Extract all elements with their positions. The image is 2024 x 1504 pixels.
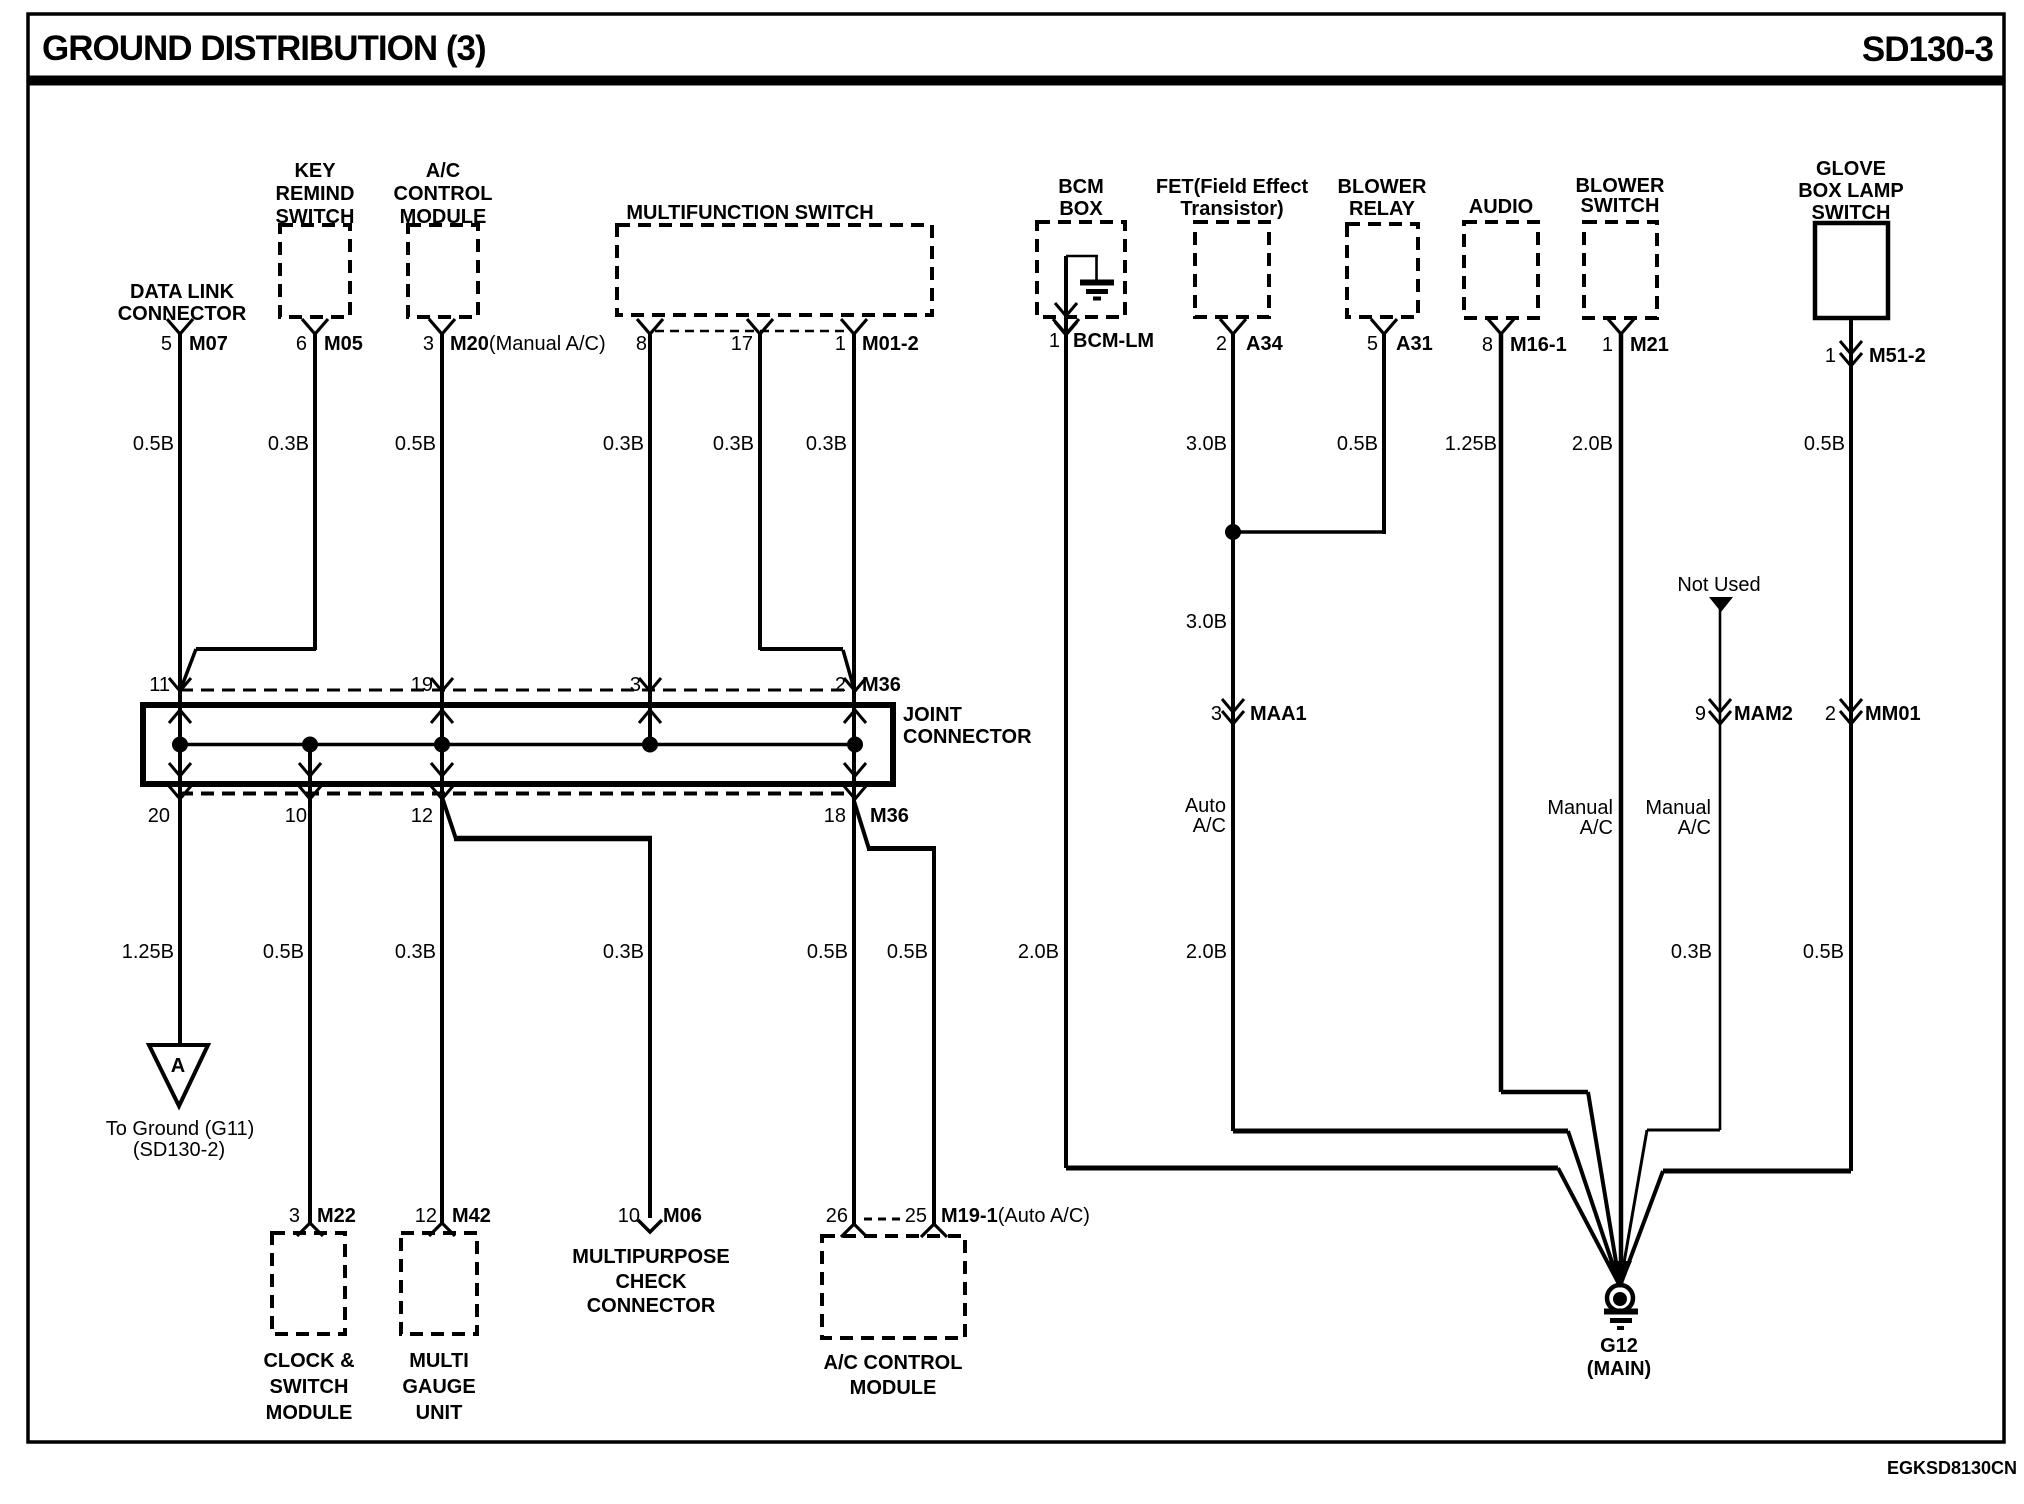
wire M16-1 horizontal run	[1501, 1090, 1588, 1095]
multifunction switch box	[617, 225, 932, 315]
connector Y M20	[429, 319, 455, 334]
fet box	[1195, 222, 1269, 317]
bcm internal ground bar 2	[1086, 289, 1108, 294]
clock & switch module box	[272, 1233, 345, 1334]
M19-1 connector dashed segment	[864, 1218, 904, 1221]
svg-text:A/C: A/C	[1580, 817, 1613, 839]
svg-text:GLOVE: GLOVE	[1816, 158, 1886, 180]
multi gauge unit box	[401, 1233, 477, 1334]
wire MAM2 diagonal to G12	[1620, 1130, 1647, 1286]
connector Y MFS pin 1	[841, 319, 867, 334]
svg-text:0.5B: 0.5B	[807, 941, 848, 963]
svg-text:Manual: Manual	[1645, 797, 1711, 819]
svg-text:0.5B: 0.5B	[1804, 433, 1845, 455]
bus junction dot pin 10	[302, 737, 318, 753]
svg-text:UNIT: UNIT	[416, 1402, 463, 1424]
wire joint pin 10 to M22	[308, 745, 312, 1223]
joint bottom pin 10 inner arrow	[299, 763, 321, 776]
svg-text:CHECK: CHECK	[615, 1271, 687, 1293]
svg-text:MULTIPURPOSE: MULTIPURPOSE	[572, 1246, 729, 1268]
wire pin 17 horizontal jog	[760, 647, 843, 651]
svg-text:(MAIN): (MAIN)	[1587, 1358, 1651, 1380]
svg-text:A31: A31	[1396, 333, 1433, 355]
svg-text:GROUND DISTRIBUTION (3): GROUND DISTRIBUTION (3)	[42, 29, 486, 68]
wire MFS pin 17 vertical	[758, 334, 762, 650]
svg-text:2: 2	[1825, 703, 1836, 725]
wire MM01 diagonal to G12	[1620, 1171, 1663, 1286]
wire M05 vertical	[313, 334, 317, 650]
glove box lamp switch box	[1815, 223, 1888, 318]
svg-text:M42: M42	[452, 1205, 491, 1227]
svg-text:0.3B: 0.3B	[603, 941, 644, 963]
bus junction dot pin 11/20	[172, 737, 188, 753]
svg-text:CLOCK &: CLOCK &	[263, 1350, 354, 1372]
svg-text:CONNECTOR: CONNECTOR	[118, 303, 247, 325]
connector Y MFS pin 8	[637, 319, 663, 334]
svg-text:0.3B: 0.3B	[713, 433, 754, 455]
connector chevrons MM01	[1840, 699, 1862, 712]
svg-text:M16-1: M16-1	[1510, 334, 1567, 356]
wire BCM-LM horizontal run	[1066, 1166, 1558, 1171]
G12 ground bar 2	[1610, 1318, 1632, 1323]
svg-text:3: 3	[289, 1205, 300, 1227]
svg-text:MAM2: MAM2	[1734, 703, 1793, 725]
svg-text:0.5B: 0.5B	[395, 433, 436, 455]
svg-text:1: 1	[1825, 345, 1836, 367]
svg-text:0.5B: 0.5B	[887, 941, 928, 963]
svg-text:3: 3	[423, 333, 434, 355]
bcm internal ground bar 3	[1093, 297, 1101, 301]
connector Y M21	[1608, 319, 1634, 334]
svg-text:CONTROL: CONTROL	[394, 183, 493, 205]
svg-text:1.25B: 1.25B	[122, 941, 174, 963]
joint top pin 2 entry chevron	[844, 678, 866, 691]
wire to M06 connector	[648, 836, 652, 1218]
svg-text:M20(Manual A/C): M20(Manual A/C)	[450, 333, 606, 355]
title divider rule	[28, 76, 2004, 86]
wire A31 vertical 0.5B	[1382, 334, 1386, 534]
svg-text:MULTIFUNCTION SWITCH: MULTIFUNCTION SWITCH	[626, 202, 873, 224]
joint top pin 19 entry chevron	[431, 678, 453, 691]
joint top pin 2 inner arrow	[844, 710, 866, 723]
bcm internal wire horizontal	[1066, 255, 1098, 258]
svg-text:12: 12	[415, 1205, 437, 1227]
joint bottom pin 10 exit chevron	[299, 786, 321, 799]
svg-text:M22: M22	[317, 1205, 356, 1227]
joint top pin 3 entry chevron	[639, 678, 661, 691]
audio box	[1464, 222, 1538, 318]
wire branch pin 18 horizontal	[867, 846, 936, 851]
svg-text:Manual: Manual	[1547, 797, 1613, 819]
a/c control module box bottom	[822, 1236, 965, 1338]
svg-text:1: 1	[1049, 330, 1060, 352]
connector Y M16-1	[1488, 319, 1514, 334]
multifunction switch connector dashed row	[655, 330, 848, 333]
svg-text:0.5B: 0.5B	[1337, 433, 1378, 455]
arrowhead M06	[638, 1220, 662, 1232]
bus junction dot pin 3	[642, 737, 658, 753]
wire BCM-LM vertical 2.0B	[1064, 256, 1068, 1168]
joint bottom pin 18 exit chevron	[844, 786, 866, 799]
wire M51-2/MM01 vertical 0.5B	[1849, 318, 1853, 1171]
joint connector box	[143, 705, 893, 784]
joint connector top dashed line	[180, 689, 856, 692]
connector Y M19-1 pin 25	[921, 1224, 947, 1237]
svg-text:6: 6	[296, 333, 307, 355]
wire A34/MAA1 vertical 3.0B	[1231, 334, 1235, 1131]
svg-text:(SD130-2): (SD130-2)	[133, 1139, 225, 1161]
connector Y M07	[167, 319, 193, 334]
svg-text:M05: M05	[324, 333, 363, 355]
connector chevrons MAA1	[1222, 699, 1244, 712]
svg-text:0.3B: 0.3B	[395, 941, 436, 963]
svg-text:To Ground (G11): To Ground (G11)	[106, 1118, 255, 1140]
wire M01-2 to joint pin 2 / pin 18 to M19-1 pin 26	[852, 334, 856, 1224]
svg-text:A/C CONTROL: A/C CONTROL	[824, 1352, 963, 1374]
svg-text:0.5B: 0.5B	[133, 433, 174, 455]
svg-text:MODULE: MODULE	[266, 1402, 353, 1424]
svg-text:M19-1(Auto A/C): M19-1(Auto A/C)	[941, 1205, 1090, 1227]
connector Y A34	[1220, 319, 1246, 334]
svg-text:MM01: MM01	[1865, 703, 1921, 725]
svg-text:1: 1	[1602, 334, 1613, 356]
svg-text:SWITCH: SWITCH	[1581, 195, 1660, 217]
svg-text:CONNECTOR: CONNECTOR	[587, 1295, 716, 1317]
svg-text:FET(Field Effect: FET(Field Effect	[1156, 176, 1309, 198]
svg-text:JOINT: JOINT	[903, 704, 962, 726]
svg-text:M36: M36	[862, 674, 901, 696]
svg-text:2.0B: 2.0B	[1018, 941, 1059, 963]
svg-text:EGKSD8130CN: EGKSD8130CN	[1887, 1458, 2017, 1478]
svg-text:Not Used: Not Used	[1677, 574, 1760, 596]
wire M16-1 diagonal to G12	[1588, 1092, 1620, 1286]
svg-text:BCM: BCM	[1058, 176, 1104, 198]
joint bottom pin 18 inner arrow	[844, 763, 866, 776]
svg-text:0.3B: 0.3B	[603, 433, 644, 455]
connector chevrons M51-2	[1840, 341, 1862, 354]
joint top pin 11 inner arrow	[169, 710, 191, 723]
bcm internal wire vertical	[1095, 256, 1098, 281]
svg-text:CONNECTOR: CONNECTOR	[903, 726, 1032, 748]
svg-text:11: 11	[149, 674, 170, 696]
svg-text:AUDIO: AUDIO	[1469, 196, 1533, 218]
joint bottom pin 20 inner arrow	[169, 763, 191, 776]
connector Y A31	[1371, 319, 1397, 334]
svg-text:10: 10	[285, 805, 307, 827]
wire pin 17 diagonal into joint pin 2	[843, 650, 855, 692]
joint connector bus wire	[180, 743, 855, 747]
G12 ground bar 1	[1604, 1309, 1638, 1315]
svg-text:KEY: KEY	[294, 160, 336, 182]
junction dot A34/A31	[1225, 524, 1241, 540]
svg-text:BLOWER: BLOWER	[1338, 176, 1427, 198]
svg-text:GAUGE: GAUGE	[402, 1376, 475, 1398]
wire MAA1 horizontal run	[1233, 1129, 1568, 1134]
svg-text:M51-2: M51-2	[1869, 345, 1926, 367]
svg-text:BOX LAMP: BOX LAMP	[1798, 180, 1904, 202]
joint top pin 11 entry chevron	[169, 678, 191, 691]
G12 ground bar 3	[1617, 1326, 1624, 1330]
svg-text:BOX: BOX	[1059, 198, 1103, 220]
svg-text:M06: M06	[663, 1205, 702, 1227]
joint connector bottom dashed line	[180, 792, 856, 796]
wire M20 to joint pin 19 / pin 12 to M42	[440, 334, 444, 1223]
wire M05 horizontal jog	[196, 647, 316, 651]
svg-text:5: 5	[1367, 333, 1378, 355]
ground reference triangle A	[149, 1045, 208, 1106]
joint top pin 19 inner arrow	[431, 710, 453, 723]
connector Y MFS pin 17	[747, 319, 773, 334]
wire MAM2 horizontal run	[1647, 1129, 1720, 1132]
svg-text:SWITCH: SWITCH	[1812, 202, 1891, 224]
a/c control module box	[408, 225, 478, 317]
bcm box	[1037, 222, 1125, 317]
svg-text:25: 25	[905, 1205, 927, 1227]
connector Y M22	[297, 1223, 323, 1236]
svg-text:19: 19	[411, 674, 433, 696]
G12 ground symbol	[1607, 1285, 1633, 1311]
joint bottom pin 12 exit chevron	[431, 786, 453, 799]
svg-text:MODULE: MODULE	[850, 1377, 937, 1399]
wire MAA1 diagonal to G12	[1568, 1131, 1620, 1286]
svg-text:1: 1	[835, 333, 846, 355]
svg-text:2: 2	[1216, 333, 1227, 355]
G12 ground wedge of converging wires	[1608, 1261, 1632, 1288]
wire branch pin 18 diagonal	[854, 801, 869, 849]
wire BCM-LM diagonal to G12	[1558, 1168, 1620, 1286]
wire M21 vertical 2.0B to G12	[1619, 334, 1624, 1286]
bcm pin exit chevron	[1055, 322, 1077, 335]
svg-text:M21: M21	[1630, 334, 1669, 356]
svg-text:Transistor): Transistor)	[1180, 198, 1283, 220]
svg-text:M01-2: M01-2	[862, 333, 919, 355]
svg-text:3: 3	[1211, 703, 1222, 725]
wire to M19-1 pin 25	[932, 846, 936, 1224]
wire branch pin 12 horizontal	[454, 836, 652, 842]
svg-text:BLOWER: BLOWER	[1576, 175, 1665, 197]
wire branch pin 12 diagonal	[442, 797, 456, 839]
svg-text:BCM-LM: BCM-LM	[1073, 330, 1154, 352]
svg-text:MAA1: MAA1	[1250, 703, 1307, 725]
wire A31 horizontal to junction	[1233, 530, 1384, 534]
wire MFS pin 8 to joint pin 3	[648, 334, 652, 745]
svg-text:8: 8	[1482, 334, 1493, 356]
wire MAM2 vertical	[1719, 609, 1722, 1130]
svg-text:3.0B: 3.0B	[1186, 611, 1227, 633]
svg-text:2: 2	[835, 674, 846, 696]
blower relay box	[1347, 224, 1418, 317]
bus junction dot pin 2/18	[847, 737, 863, 753]
wire MM01 horizontal run	[1663, 1169, 1851, 1174]
connector Y M19-1 pin 26	[841, 1224, 867, 1237]
connector Y BCM-LM	[1053, 319, 1079, 334]
wire M16-1 vertical 1.25B	[1499, 334, 1504, 1092]
wire M07 to joint pin 11 / pin 20 to ground A	[178, 334, 182, 1045]
svg-text:0.3B: 0.3B	[806, 433, 847, 455]
bus junction dot pin 19/12	[434, 737, 450, 753]
svg-text:3.0B: 3.0B	[1186, 433, 1227, 455]
svg-text:A/C: A/C	[1193, 815, 1226, 837]
svg-text:DATA LINK: DATA LINK	[130, 281, 235, 303]
svg-text:REMIND: REMIND	[276, 183, 355, 205]
svg-text:SD130-3: SD130-3	[1862, 30, 1994, 69]
key remind switch box	[280, 225, 350, 317]
connector Y M05	[302, 319, 328, 334]
svg-text:5: 5	[161, 333, 172, 355]
joint bottom pin 12 inner arrow	[431, 763, 453, 776]
svg-text:2.0B: 2.0B	[1186, 941, 1227, 963]
bcm internal arrow chevron	[1055, 303, 1077, 316]
bcm internal ground bar 1	[1080, 280, 1114, 286]
svg-text:Auto: Auto	[1185, 795, 1226, 817]
svg-text:A/C: A/C	[1678, 817, 1711, 839]
svg-text:2.0B: 2.0B	[1572, 433, 1613, 455]
svg-text:SWITCH: SWITCH	[270, 1376, 349, 1398]
wire M05 diagonal into pin 11	[180, 649, 196, 691]
svg-text:MULTI: MULTI	[409, 1350, 469, 1372]
svg-text:0.3B: 0.3B	[1671, 941, 1712, 963]
svg-text:8: 8	[636, 333, 647, 355]
svg-text:0.3B: 0.3B	[268, 433, 309, 455]
svg-text:26: 26	[826, 1205, 848, 1227]
blower switch box	[1584, 222, 1657, 318]
svg-text:0.5B: 0.5B	[263, 941, 304, 963]
svg-text:17: 17	[731, 333, 753, 355]
svg-text:3: 3	[630, 674, 641, 696]
svg-text:18: 18	[824, 805, 846, 827]
svg-text:12: 12	[411, 805, 433, 827]
connector Y M42	[429, 1223, 455, 1236]
joint top pin 3 inner arrow	[639, 710, 661, 723]
svg-text:A34: A34	[1246, 333, 1284, 355]
joint bottom pin 20 exit chevron	[169, 786, 191, 799]
svg-text:0.5B: 0.5B	[1803, 941, 1844, 963]
svg-text:M36: M36	[870, 805, 909, 827]
connector chevrons MAM2	[1709, 699, 1731, 712]
svg-text:G12: G12	[1600, 1335, 1638, 1357]
svg-text:9: 9	[1695, 703, 1706, 725]
svg-text:20: 20	[148, 805, 170, 827]
svg-text:RELAY: RELAY	[1349, 198, 1416, 220]
svg-text:A: A	[171, 1055, 185, 1077]
svg-text:M07: M07	[189, 333, 228, 355]
svg-text:1.25B: 1.25B	[1445, 433, 1497, 455]
svg-text:A/C: A/C	[426, 160, 460, 182]
svg-text:10: 10	[618, 1205, 640, 1227]
not used terminator triangle	[1709, 597, 1733, 612]
